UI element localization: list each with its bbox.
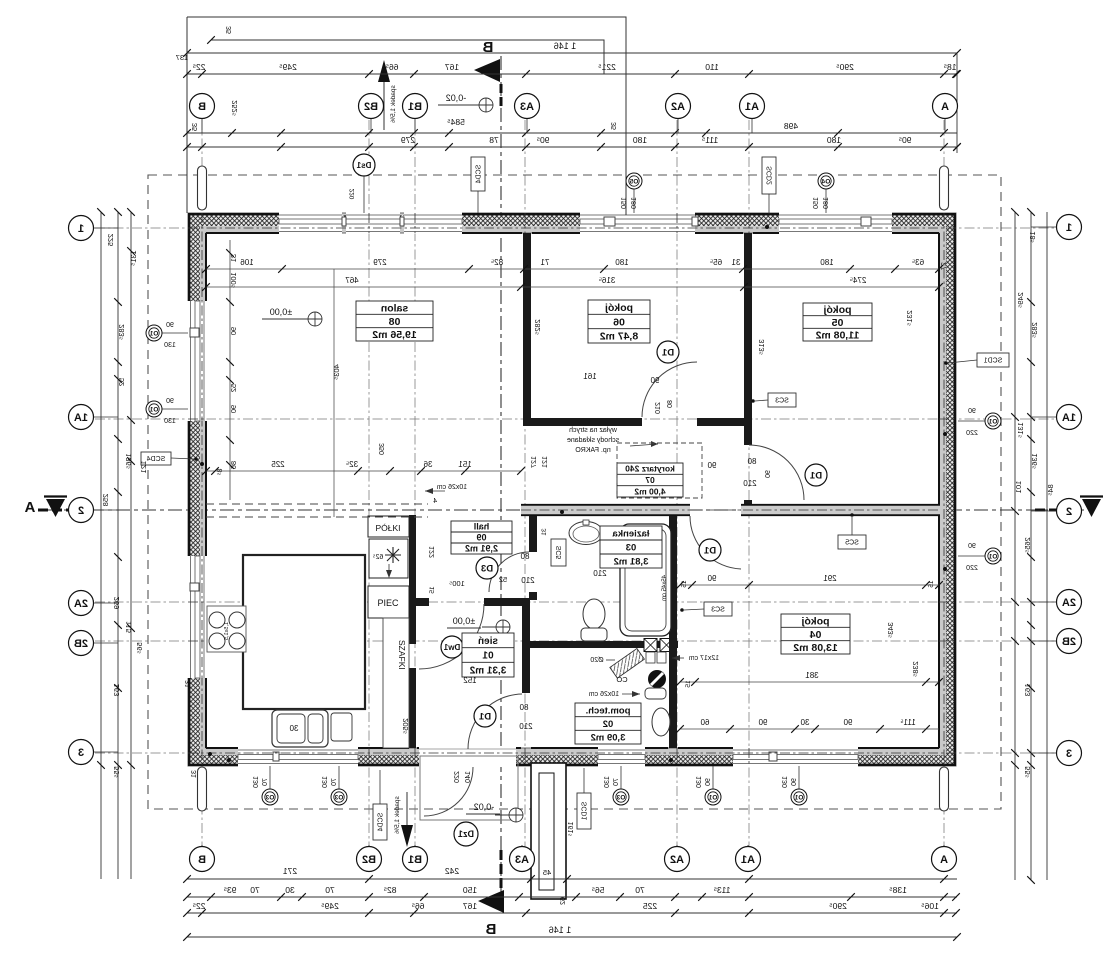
- svg-text:90: 90: [758, 718, 767, 727]
- svg-text:18⁵: 18⁵: [1028, 231, 1037, 242]
- top frame lines: [187, 17, 626, 215]
- svg-text:70: 70: [613, 778, 620, 786]
- axis overlays in walls: [201, 213, 203, 766]
- svg-text:180: 180: [820, 258, 834, 267]
- O markers top: [633, 189, 635, 213]
- svg-text:15: 15: [429, 586, 436, 594]
- svg-text:A3: A3: [515, 854, 529, 866]
- svg-text:35: 35: [611, 122, 618, 130]
- SC boxes: [141, 452, 171, 465]
- svg-text:167: 167: [463, 901, 477, 911]
- svg-text:313⁵: 313⁵: [757, 339, 766, 355]
- svg-text:30: 30: [285, 885, 295, 895]
- svg-text:spadek 1,5%: spadek 1,5%: [390, 85, 397, 123]
- svg-text:pokój: pokój: [605, 302, 633, 314]
- svg-text:78: 78: [489, 135, 499, 145]
- svg-text:4: 4: [433, 498, 437, 505]
- svg-text:70: 70: [262, 778, 269, 786]
- svg-text:O5: O5: [629, 179, 638, 186]
- svg-text:498: 498: [784, 121, 798, 131]
- right margin lines: [1014, 212, 1016, 880]
- svg-text:4,00 m2: 4,00 m2: [634, 486, 665, 496]
- axis circles top: [201, 118, 203, 133]
- svg-text:sień: sień: [478, 636, 498, 647]
- wall boundary thin: [188, 213, 956, 766]
- sink: [272, 710, 328, 747]
- axis grid lines: [201, 120, 203, 848]
- svg-text:90: 90: [166, 322, 174, 329]
- door D1 pokoj04: [690, 516, 741, 569]
- svg-text:pom.tech.: pom.tech.: [586, 705, 631, 716]
- wc: [583, 599, 605, 629]
- top dim chain y147: [187, 146, 957, 148]
- svg-text:90: 90: [968, 408, 976, 415]
- salon chain y471: [206, 470, 521, 472]
- room label lazienka: [600, 526, 662, 568]
- svg-text:np. FAKRO: np. FAKRO: [575, 447, 611, 454]
- door D3 lazienka: [489, 552, 529, 592]
- svg-text:31: 31: [541, 528, 548, 536]
- svg-text:31: 31: [191, 770, 198, 778]
- flue: [648, 670, 666, 688]
- svg-text:22⁵: 22⁵: [193, 901, 206, 911]
- svg-text:31: 31: [185, 680, 192, 688]
- lazienka west wall: [529, 516, 537, 552]
- svg-text:3: 3: [78, 747, 84, 759]
- pokoj04 chains: [680, 584, 939, 586]
- svg-text:82⁵: 82⁵: [384, 885, 397, 895]
- svg-text:271: 271: [283, 866, 297, 876]
- steps outside: [531, 763, 566, 899]
- svg-text:151: 151: [458, 460, 472, 469]
- svg-text:SCD4: SCD4: [476, 165, 483, 184]
- svg-text:56⁵: 56⁵: [592, 885, 605, 895]
- svg-text:220: 220: [454, 771, 461, 783]
- svg-text:36: 36: [423, 460, 432, 469]
- svg-text:225: 225: [106, 234, 115, 247]
- svg-text:231⁵: 231⁵: [905, 310, 914, 326]
- svg-text:korytarz 240: korytarz 240: [625, 464, 675, 474]
- svg-text:D1: D1: [703, 545, 716, 556]
- svg-text:106⁵: 106⁵: [921, 901, 939, 911]
- spadek top: [383, 78, 385, 130]
- stove: [207, 606, 246, 652]
- windows top wall: [279, 212, 342, 234]
- room label korytarz: [617, 463, 683, 497]
- svg-text:SCD1: SCD1: [582, 802, 589, 821]
- svg-text:90: 90: [650, 376, 659, 385]
- svg-text:3: 3: [1066, 748, 1072, 760]
- svg-text:106: 106: [240, 258, 254, 267]
- svg-text:A: A: [940, 854, 948, 866]
- washbasin lazienka: [569, 522, 603, 545]
- svg-text:45: 45: [543, 868, 551, 877]
- svg-text:110: 110: [705, 62, 719, 72]
- room label salon: [356, 301, 433, 341]
- svg-text:2: 2: [1066, 506, 1072, 518]
- svg-text:343⁵: 343⁵: [886, 622, 895, 638]
- sien east wall: [522, 599, 530, 693]
- svg-text:584⁵: 584⁵: [447, 117, 465, 127]
- svg-text:Ds1: Ds1: [356, 161, 371, 170]
- door Dw1 sien: [419, 604, 484, 669]
- svg-text:316⁵: 316⁵: [599, 276, 616, 285]
- svg-text:31: 31: [229, 254, 238, 262]
- svg-text:52: 52: [117, 378, 126, 386]
- svg-text:03: 03: [626, 542, 637, 553]
- svg-text:SC3: SC3: [711, 607, 725, 614]
- entrance opening: [419, 748, 516, 768]
- svg-text:167: 167: [445, 62, 459, 72]
- svg-text:1 146: 1 146: [554, 41, 577, 51]
- svg-text:238⁵: 238⁵: [911, 661, 920, 677]
- svg-text:06: 06: [613, 316, 625, 328]
- svg-text:62⁵: 62⁵: [373, 554, 384, 561]
- korytarz dims: [707, 461, 716, 470]
- svg-text:140: 140: [465, 771, 472, 783]
- svg-text:SCD2: SCD2: [767, 166, 774, 185]
- top dim chain y133: [187, 132, 957, 134]
- axis circles right: [1031, 226, 1056, 228]
- room label pokoj06: [588, 300, 650, 343]
- windows bottom wall + entrance: [238, 748, 358, 768]
- windows left wall: [187, 301, 207, 421]
- svg-text:O3: O3: [334, 795, 343, 802]
- right short vline: [956, 53, 958, 153]
- svg-text:2B: 2B: [1062, 636, 1076, 648]
- svg-text:161⁵: 161⁵: [568, 822, 575, 837]
- section arrow right: [1080, 495, 1103, 497]
- svg-text:71: 71: [540, 258, 549, 267]
- bathtub: [620, 524, 671, 636]
- svg-text:381: 381: [805, 671, 819, 680]
- Ds1: [353, 154, 375, 176]
- svg-text:08: 08: [389, 316, 401, 328]
- top line y53: [187, 52, 957, 54]
- svg-text:180: 180: [827, 135, 841, 145]
- O markers right: [958, 420, 985, 422]
- svg-text:1A: 1A: [1062, 412, 1076, 424]
- spadek bottom: [406, 792, 408, 828]
- svg-text:30: 30: [289, 724, 298, 733]
- section B bottom: [485, 921, 496, 938]
- section line B vertical: [500, 56, 502, 905]
- svg-text:290⁵: 290⁵: [836, 62, 854, 72]
- svg-text:65⁵: 65⁵: [710, 258, 722, 267]
- svg-text:B: B: [198, 101, 206, 113]
- room label sien: [462, 633, 514, 677]
- svg-text:SC5: SC5: [556, 546, 563, 560]
- svg-text:70: 70: [331, 778, 338, 786]
- svg-text:PÓŁKI: PÓŁKI: [375, 523, 400, 533]
- svg-text:1: 1: [1066, 222, 1072, 234]
- thick wall edges: [188, 213, 279, 215]
- svg-text:8⁵: 8⁵: [217, 469, 224, 476]
- svg-text:111⁵: 111⁵: [702, 135, 718, 145]
- svg-text:66⁵: 66⁵: [412, 901, 425, 911]
- svg-text:1A: 1A: [74, 412, 88, 424]
- svg-text:350: 350: [379, 443, 386, 455]
- svg-text:130: 130: [322, 776, 329, 788]
- svg-text:SCD4: SCD4: [378, 813, 385, 832]
- svg-text:12x17 cm: 12x17 cm: [689, 655, 720, 662]
- O markers left: [162, 332, 188, 334]
- svg-text:82⁵: 82⁵: [491, 258, 503, 267]
- svg-text:10x26 cm: 10x26 cm: [589, 691, 620, 698]
- svg-text:258: 258: [101, 494, 110, 507]
- polki: [368, 516, 409, 537]
- svg-text:90: 90: [166, 398, 174, 405]
- svg-text:210: 210: [519, 722, 533, 731]
- szafki: [383, 618, 409, 748]
- svg-text:55⁵: 55⁵: [112, 766, 121, 777]
- svg-text:252⁵: 252⁵: [230, 100, 239, 116]
- svg-text:D3: D3: [481, 563, 493, 574]
- svg-text:±0,00: ±0,00: [270, 307, 292, 317]
- svg-text:220: 220: [349, 189, 356, 200]
- svg-text:90: 90: [707, 574, 716, 583]
- svg-text:90: 90: [791, 778, 798, 786]
- svg-text:SC5: SC5: [845, 540, 859, 547]
- svg-text:18⁵: 18⁵: [944, 62, 957, 72]
- svg-text:122: 122: [429, 546, 436, 558]
- entrance dims: [454, 771, 461, 783]
- svg-text:D1: D1: [809, 470, 822, 481]
- svg-text:SCD1: SCD1: [984, 358, 1003, 365]
- svg-text:B: B: [198, 854, 206, 866]
- svg-text:salon: salon: [381, 302, 408, 314]
- svg-text:163: 163: [1023, 684, 1032, 697]
- section line A horizontal: [38, 509, 1084, 511]
- svg-text:210: 210: [521, 576, 535, 585]
- svg-text:3,31 m2: 3,31 m2: [469, 665, 506, 676]
- door D1 sien east: [468, 694, 522, 749]
- svg-text:PIEC: PIEC: [377, 598, 399, 608]
- svg-text:113⁵: 113⁵: [713, 885, 730, 895]
- entrance landing: [420, 756, 518, 820]
- svg-text:282⁵: 282⁵: [533, 319, 542, 335]
- svg-text:283⁵: 283⁵: [1030, 322, 1039, 338]
- svg-text:93⁵: 93⁵: [224, 885, 237, 895]
- svg-text:265⁵: 265⁵: [1023, 537, 1032, 553]
- svg-text:55⁵: 55⁵: [1023, 766, 1032, 777]
- svg-text:180: 180: [631, 197, 638, 209]
- interior chain y269: [206, 268, 939, 270]
- svg-text:A1: A1: [741, 854, 755, 866]
- svg-text:290⁵: 290⁵: [829, 901, 847, 911]
- hall/lazienka dims: [520, 552, 529, 561]
- svg-text:10x26 cm: 10x26 cm: [437, 484, 468, 491]
- svg-text:2B: 2B: [74, 638, 88, 650]
- svg-text:±0,00: ±0,00: [453, 616, 475, 626]
- svg-text:80: 80: [519, 703, 528, 712]
- svg-text:130: 130: [164, 342, 176, 349]
- svg-text:136⁵: 136⁵: [1030, 453, 1039, 469]
- svg-text:66⁵: 66⁵: [386, 62, 399, 72]
- svg-text:O1: O1: [149, 331, 158, 338]
- svg-text:130: 130: [604, 776, 611, 788]
- svg-text:70: 70: [635, 885, 645, 895]
- kitchen/hall wall: [409, 515, 416, 598]
- svg-text:56⁵: 56⁵: [135, 642, 144, 653]
- axis circles bottom: [201, 845, 203, 860]
- svg-text:80: 80: [520, 552, 529, 561]
- svg-text:B1: B1: [408, 101, 422, 113]
- salon vline x334: [333, 269, 335, 517]
- top dim chain y74: [187, 73, 957, 75]
- svg-text:pokój: pokój: [823, 304, 851, 316]
- washbasin pomtech: [652, 708, 670, 736]
- svg-text:O1: O1: [988, 419, 997, 426]
- svg-text:O1: O1: [988, 554, 997, 561]
- stairs dashes salon-hall: [206, 503, 428, 505]
- svg-text:2: 2: [78, 505, 84, 517]
- section A left: [24, 499, 35, 516]
- level marks: [308, 312, 322, 326]
- svg-text:121: 121: [542, 456, 549, 468]
- svg-text:O3: O3: [265, 795, 274, 802]
- svg-text:52: 52: [229, 384, 238, 392]
- svg-text:O3: O3: [616, 795, 625, 802]
- svg-text:90: 90: [707, 461, 716, 470]
- svg-text:283⁵: 283⁵: [117, 324, 126, 340]
- svg-text:90: 90: [765, 470, 772, 478]
- svg-text:130: 130: [164, 418, 176, 425]
- svg-text:Dw1: Dw1: [443, 643, 460, 652]
- svg-text:52: 52: [499, 575, 507, 584]
- svg-text:35: 35: [190, 123, 199, 131]
- svg-text:2A: 2A: [1062, 597, 1076, 609]
- svg-text:220: 220: [966, 565, 978, 572]
- svg-text:90: 90: [968, 543, 976, 550]
- svg-text:130: 130: [253, 776, 260, 788]
- O markers bottom: [269, 766, 271, 789]
- svg-text:242: 242: [445, 866, 459, 876]
- svg-text:B2: B2: [362, 854, 376, 866]
- svg-text:111⁵: 111⁵: [900, 718, 915, 727]
- svg-text:60: 60: [700, 718, 709, 727]
- entrance door Dz1: [424, 767, 473, 816]
- svg-text:467: 467: [345, 276, 359, 285]
- svg-text:B: B: [485, 921, 496, 938]
- shaft 62.5: [369, 539, 408, 578]
- svg-text:D1: D1: [661, 347, 674, 358]
- door D1 pokoj05: [749, 445, 804, 500]
- room label hall: [451, 521, 512, 554]
- left margin lines: [100, 212, 102, 879]
- svg-text:A1: A1: [745, 101, 759, 113]
- svg-text:8,47 m2: 8,47 m2: [600, 331, 639, 343]
- svg-text:35: 35: [226, 26, 233, 34]
- svg-text:A3: A3: [520, 101, 534, 113]
- svg-text:31: 31: [731, 258, 740, 267]
- svg-text:A: A: [24, 499, 35, 516]
- korytarz south wall (axis 2): [521, 504, 690, 516]
- svg-text:279: 279: [401, 135, 415, 145]
- svg-text:150: 150: [813, 197, 820, 209]
- svg-text:80: 80: [667, 400, 674, 408]
- svg-text:205⁵: 205⁵: [401, 718, 410, 734]
- hall/sien wall: [409, 598, 429, 606]
- svg-text:O1: O1: [149, 407, 158, 414]
- svg-text:115: 115: [124, 621, 133, 633]
- svg-text:45x45 cm: 45x45 cm: [662, 575, 668, 601]
- 10x26 labels: [437, 484, 468, 491]
- svg-text:279: 279: [373, 258, 387, 267]
- svg-text:220: 220: [966, 430, 978, 437]
- svg-text:1,5x1,5: 1,5x1,5: [224, 622, 230, 640]
- svg-text:wyłaz na strych: wyłaz na strych: [569, 427, 618, 434]
- svg-text:O1: O1: [708, 795, 717, 802]
- svg-text:150: 150: [621, 197, 628, 209]
- svg-text:90: 90: [229, 327, 238, 335]
- svg-text:130: 130: [696, 776, 703, 788]
- svg-text:30: 30: [800, 718, 809, 727]
- door D1 pokoj06: [642, 362, 697, 417]
- room label pokoj05: [803, 303, 872, 341]
- svg-text:15: 15: [685, 680, 692, 688]
- plot boundary dashed: [148, 175, 1001, 809]
- svg-text:137: 137: [176, 53, 189, 62]
- svg-text:221⁵: 221⁵: [598, 62, 616, 72]
- svg-text:02: 02: [603, 719, 614, 730]
- salon vertical chain x230: [229, 240, 231, 500]
- exterior wall hatch strips: [189, 215, 955, 226]
- svg-text:63⁵: 63⁵: [912, 258, 924, 267]
- svg-text:32⁵: 32⁵: [346, 460, 358, 469]
- svg-text:SCD4: SCD4: [147, 456, 166, 463]
- svg-text:11,08 m2: 11,08 m2: [815, 329, 859, 341]
- svg-text:249⁵: 249⁵: [321, 901, 339, 911]
- svg-text:249⁵: 249⁵: [1016, 292, 1025, 308]
- svg-text:07: 07: [645, 475, 655, 485]
- svg-text:127: 127: [531, 456, 538, 468]
- svg-text:A2: A2: [671, 101, 685, 113]
- svg-text:100⁵: 100⁵: [449, 579, 465, 588]
- interior wall salon/pokoj06: [523, 233, 531, 418]
- svg-text:D1: D1: [478, 711, 491, 722]
- wall dots: [560, 510, 564, 514]
- sien dims: [463, 676, 477, 685]
- svg-text:05: 05: [832, 317, 844, 329]
- svg-text:249⁵: 249⁵: [279, 62, 297, 72]
- svg-text:180: 180: [633, 135, 647, 145]
- svg-text:15: 15: [928, 580, 935, 588]
- svg-text:schody składane: schody składane: [567, 437, 619, 444]
- svg-text:100⁵: 100⁵: [229, 272, 238, 288]
- svg-text:131⁵: 131⁵: [1016, 422, 1025, 438]
- room label pokoj04: [781, 614, 850, 654]
- interior wall pokoj06 south: [523, 418, 642, 426]
- svg-text:150: 150: [463, 885, 477, 895]
- svg-text:225: 225: [271, 460, 285, 469]
- svg-text:84⁵: 84⁵: [1046, 484, 1055, 495]
- kitchen island: [243, 555, 365, 709]
- svg-text:210: 210: [743, 479, 757, 488]
- svg-text:90⁵: 90⁵: [899, 135, 912, 145]
- svg-text:274⁵: 274⁵: [850, 276, 867, 285]
- svg-text:15: 15: [681, 580, 688, 588]
- svg-text:180: 180: [615, 258, 629, 267]
- svg-text:3,81 m2: 3,81 m2: [614, 556, 649, 567]
- svg-text:1: 1: [78, 223, 84, 235]
- svg-text:101: 101: [1014, 481, 1023, 494]
- svg-text:09: 09: [476, 533, 486, 543]
- svg-text:A: A: [941, 101, 949, 113]
- svg-text:62: 62: [560, 897, 567, 905]
- pokoj06 door dims: [583, 372, 597, 381]
- svg-text:Ø20: Ø20: [590, 657, 603, 664]
